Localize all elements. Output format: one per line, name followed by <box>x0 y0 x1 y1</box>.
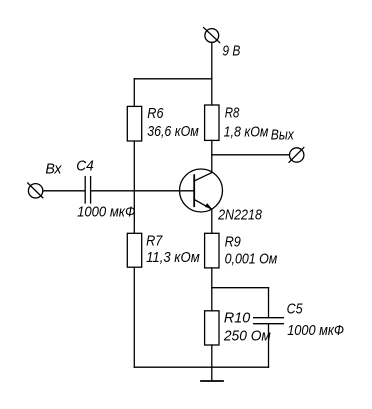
resistor R6 <box>127 106 141 141</box>
capacitor C5 <box>254 318 284 324</box>
svg-text:Вых: Вых <box>271 126 294 143</box>
svg-text:9 В: 9 В <box>222 43 240 60</box>
wire parallel branch top <box>212 287 269 289</box>
ground <box>201 380 223 382</box>
resistor R7 <box>127 233 141 267</box>
transistor Q1 2N2218 <box>180 169 223 212</box>
svg-text:2N2218: 2N2218 <box>217 206 262 223</box>
svg-text:R7: R7 <box>146 232 163 249</box>
wire node B to R7 top <box>133 191 135 234</box>
ground stem <box>211 367 213 381</box>
wire R8 bottom / collector <box>211 140 213 172</box>
wire top rail <box>134 78 212 80</box>
svg-text:C5: C5 <box>287 300 304 317</box>
svg-text:R9: R9 <box>225 234 242 251</box>
capacitor C4 <box>85 177 90 203</box>
wire C4 to base <box>91 190 195 192</box>
wire R6 bottom to node B <box>133 141 135 191</box>
resistor R8 <box>205 105 219 140</box>
wire R9 bottom to node E2 <box>211 268 213 288</box>
wire R7 bottom lead <box>133 267 135 367</box>
wire R10 top lead <box>211 288 213 311</box>
resistor R9 <box>205 233 219 268</box>
svg-text:36,6 кОм: 36,6 кОм <box>147 123 199 140</box>
svg-text:R8: R8 <box>225 105 240 122</box>
svg-text:1000 мкФ: 1000 мкФ <box>77 204 135 221</box>
wire C5 bottom lead <box>268 324 270 368</box>
svg-text:Вх: Вх <box>45 160 62 177</box>
wire terminal to rail <box>211 42 213 78</box>
wire bottom rail <box>134 366 268 368</box>
wire R6 top lead <box>133 79 135 107</box>
resistor R10 <box>205 311 219 345</box>
terminal input Vx <box>28 183 43 198</box>
svg-text:R6: R6 <box>147 105 164 122</box>
svg-text:11,3 кОм: 11,3 кОм <box>146 249 200 266</box>
svg-text:1000 мкФ: 1000 мкФ <box>287 322 344 339</box>
svg-text:0,001 Ом: 0,001 Ом <box>225 251 278 268</box>
wire C5 top lead <box>268 288 270 318</box>
svg-text:1,8 кОм: 1,8 кОм <box>224 123 269 140</box>
svg-text:250 Ом: 250 Ом <box>223 327 271 344</box>
svg-text:C4: C4 <box>76 158 94 175</box>
wire output <box>212 154 290 156</box>
wire input to C4 <box>43 190 85 192</box>
wire R8 top lead <box>211 79 213 105</box>
terminal output Vyx <box>289 148 304 163</box>
terminal 9V supply <box>204 28 220 43</box>
svg-text:R10: R10 <box>224 309 251 326</box>
wire R10 bottom lead <box>211 345 213 367</box>
wire emitter to R9 <box>211 209 213 233</box>
